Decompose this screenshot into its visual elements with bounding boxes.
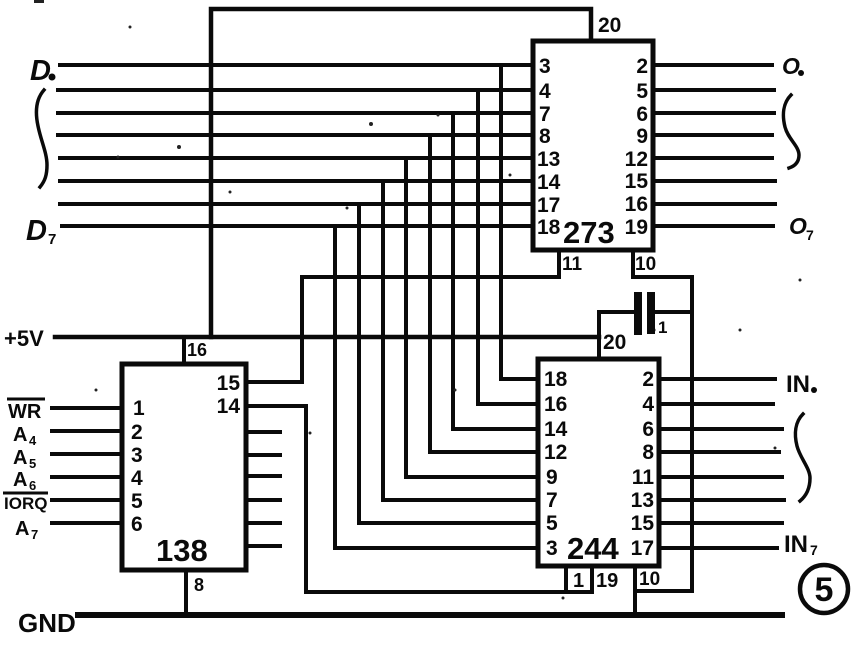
node D5 bus line	[60, 179, 533, 183]
node D7 bus line	[62, 224, 533, 228]
wire IN1 input	[659, 402, 773, 406]
svg-text:9: 9	[546, 466, 558, 489]
svg-text:7: 7	[539, 103, 551, 126]
svg-text:5: 5	[546, 512, 558, 535]
node D4 bus line	[60, 156, 533, 160]
svg-text:12: 12	[544, 441, 567, 464]
svg-text:273: 273	[563, 215, 615, 250]
svg-text:7: 7	[546, 489, 558, 512]
wire WR input	[52, 406, 122, 410]
wire IN4 input	[659, 475, 782, 479]
node D2 bus line	[58, 111, 533, 115]
wire D6 drop to U2 pin 5	[359, 204, 538, 523]
svg-text:8: 8	[539, 125, 551, 148]
svg-text:15: 15	[217, 372, 241, 395]
wire O5 output	[653, 179, 775, 183]
svg-text:7: 7	[806, 227, 814, 243]
svg-text:1: 1	[573, 570, 584, 592]
svg-text:5: 5	[815, 571, 834, 609]
svg-text:20: 20	[598, 14, 621, 37]
wire U3 pin 8 to ground	[184, 570, 188, 616]
node D0 bus line	[60, 63, 533, 67]
svg-text:19: 19	[625, 216, 648, 239]
svg-text:A: A	[13, 447, 27, 469]
ground rail	[78, 612, 782, 618]
wire D3 drop to U2 pin 12	[430, 135, 538, 452]
svg-text:4: 4	[29, 433, 37, 448]
svg-text:IORQ: IORQ	[4, 494, 47, 513]
svg-text:2: 2	[636, 55, 648, 78]
wire U3 pin 14 to U2 pins 1,19	[246, 406, 592, 592]
wire O3 output	[653, 133, 772, 137]
op U3 pin 16 VCC wire	[182, 337, 186, 364]
op-amp U3 74LS138 box	[122, 364, 246, 570]
svg-text:20: 20	[603, 331, 626, 354]
svg-text:6: 6	[642, 418, 654, 441]
wire A6 input	[52, 475, 122, 479]
svg-text:+5V: +5V	[4, 326, 44, 351]
svg-text:10: 10	[635, 254, 656, 275]
svg-text:13: 13	[537, 148, 560, 171]
svg-text:16: 16	[544, 393, 567, 416]
op-amp U2 74LS244 box	[538, 359, 659, 566]
svg-text:18: 18	[544, 368, 568, 391]
node D3 bus line	[58, 133, 533, 137]
svg-text:14: 14	[217, 395, 241, 418]
figure number circle 5	[800, 565, 848, 613]
wire +5V top rail to U1 pin 20	[211, 9, 591, 337]
wire D1 drop to U2 pin 16	[478, 90, 538, 404]
svg-text:244: 244	[567, 531, 619, 566]
svg-text:7: 7	[810, 542, 818, 558]
svg-text:1: 1	[658, 318, 667, 337]
svg-text:7: 7	[48, 231, 56, 248]
wire IN7 input	[659, 546, 777, 550]
label C1 value .1	[651, 328, 656, 333]
svg-text:19: 19	[596, 570, 618, 592]
wire O6 output	[653, 202, 775, 206]
svg-text:6: 6	[636, 103, 648, 126]
wire IN3 input	[659, 450, 779, 454]
svg-text:14: 14	[544, 418, 568, 441]
svg-text:WR: WR	[8, 401, 42, 423]
wire D7 drop to U2 pin 3	[335, 226, 538, 548]
wire U3 output stub a	[246, 430, 280, 434]
svg-text:8: 8	[642, 441, 654, 464]
svg-text:A: A	[13, 469, 27, 491]
svg-text:6: 6	[29, 478, 36, 493]
svg-text:17: 17	[631, 537, 654, 560]
svg-text:GND: GND	[18, 608, 76, 638]
wire IN2 input	[659, 427, 782, 431]
capacitor C1 left wire	[599, 310, 634, 314]
svg-text:2: 2	[642, 368, 654, 391]
svg-text:5: 5	[636, 80, 648, 103]
svg-text:4: 4	[539, 80, 551, 103]
svg-text:6: 6	[131, 513, 143, 536]
svg-text:138: 138	[156, 533, 208, 568]
brace D bus	[36, 90, 47, 187]
svg-text:IN: IN	[786, 371, 810, 398]
wire A4 input	[52, 429, 122, 433]
svg-text:15: 15	[631, 512, 655, 535]
wire D5 drop to U2 pin 7	[383, 181, 538, 500]
svg-text:O: O	[789, 213, 807, 239]
node D6 bus line	[60, 202, 533, 206]
wire U1 pin 10 ground link	[633, 250, 692, 591]
brace O outputs	[783, 95, 799, 168]
svg-text:3: 3	[539, 55, 551, 78]
svg-text:9: 9	[636, 125, 648, 148]
wire U1 pin 11 to U3 pin 15	[246, 250, 559, 382]
wire U2 pins 1,19 enable box	[566, 566, 592, 591]
wire U3 output stub c	[246, 474, 280, 478]
wire O4 output	[653, 156, 772, 160]
wire IN0 input	[659, 377, 775, 381]
wire D4 drop to U2 pin 9	[406, 158, 538, 477]
svg-text:18: 18	[537, 216, 561, 239]
svg-text:5: 5	[29, 456, 36, 471]
wire O0 output	[653, 63, 772, 67]
wire U2 pin 20 VCC	[597, 312, 601, 359]
wire O1 output	[653, 88, 774, 92]
svg-text:1: 1	[133, 397, 145, 420]
brace IN inputs	[795, 414, 810, 501]
svg-text:11: 11	[632, 466, 655, 489]
wire U3 output stub e	[246, 521, 280, 525]
svg-text:11: 11	[562, 254, 583, 275]
svg-text:3: 3	[546, 537, 558, 560]
wire O2 output	[653, 111, 774, 115]
capacitor C1 right wire	[655, 310, 692, 314]
svg-text:5: 5	[131, 490, 143, 513]
op-amp U1 74LS273 box	[533, 41, 653, 250]
capacitor C1 left plate	[634, 296, 642, 331]
svg-text:10: 10	[639, 569, 660, 590]
wire U3 output stub f	[246, 544, 280, 548]
svg-text:D: D	[30, 55, 51, 87]
wire U3 output stub b	[246, 453, 280, 457]
svg-text:4: 4	[642, 393, 654, 416]
svg-text:4: 4	[131, 467, 143, 490]
wire IN5 input	[659, 498, 784, 502]
wire U3 output stub d	[246, 498, 280, 502]
svg-text:8: 8	[194, 575, 204, 595]
svg-text:A: A	[15, 518, 29, 540]
svg-text:17: 17	[537, 194, 560, 217]
wire IN6 input	[659, 521, 782, 525]
svg-text:16: 16	[187, 340, 207, 360]
svg-text:15: 15	[625, 170, 649, 193]
wire D0 drop to U2 pin 18	[501, 65, 538, 379]
svg-text:12: 12	[625, 148, 648, 171]
wire IORQ input	[52, 498, 122, 502]
svg-text:D: D	[26, 215, 47, 247]
node D1 bus line	[58, 88, 533, 92]
capacitor C1 right plate	[647, 296, 655, 330]
svg-text:7: 7	[31, 527, 38, 542]
wire D2 drop to U2 pin 14	[453, 113, 538, 429]
wire A5 input	[52, 452, 122, 456]
wire +5V rail	[55, 335, 599, 340]
svg-text:14: 14	[537, 171, 561, 194]
wire A7 input	[52, 521, 122, 525]
svg-text:IN: IN	[784, 531, 808, 558]
svg-text:O: O	[782, 53, 800, 79]
svg-text:2: 2	[131, 421, 143, 444]
svg-text:13: 13	[631, 489, 654, 512]
svg-text:16: 16	[625, 193, 648, 216]
svg-text:A: A	[13, 424, 27, 446]
wire O7 output	[653, 224, 773, 228]
svg-text:3: 3	[131, 444, 143, 467]
wire U2 pin 10 ground	[633, 566, 637, 616]
